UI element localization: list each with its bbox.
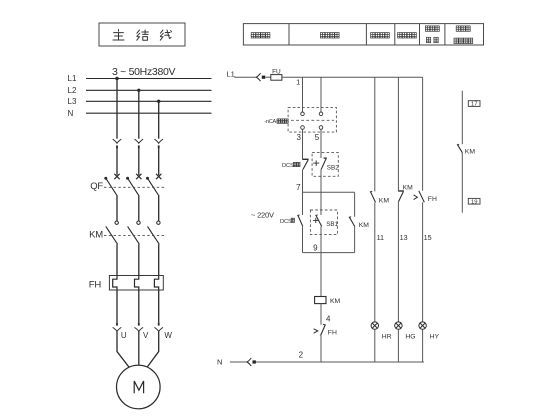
header text 仪表屏 — [456, 26, 460, 31]
svg-text:L1: L1 — [227, 69, 235, 78]
contact KM panel (NO) — [457, 144, 463, 153]
svg-text:FH: FH — [89, 280, 102, 291]
svg-text:KM: KM — [89, 229, 103, 240]
wire node7 to DCS lower — [302, 192, 304, 215]
contactor KM pole 1 contact circle — [115, 221, 118, 224]
wire V to motor — [138, 331, 140, 365]
header text 信号 — [426, 37, 430, 42]
pushbutton SB1 contact — [313, 215, 322, 227]
wire col HG drop — [397, 77, 399, 191]
wire node7 to SB1 — [320, 192, 322, 215]
svg-text:V: V — [143, 331, 149, 340]
svg-text:N: N — [68, 109, 74, 118]
svg-text:HY: HY — [430, 334, 440, 341]
contactor KM pole 2 blade — [128, 226, 140, 244]
wire drop to connector pin x=321.0 — [320, 77, 322, 112]
svg-text:15: 15 — [424, 233, 432, 242]
thermal relay FH heater pole 1 — [113, 276, 117, 291]
svg-text:5: 5 — [315, 133, 320, 142]
contact FH thermal (NC) — [314, 324, 326, 335]
junction dot phase 2 — [137, 89, 140, 92]
header text 热保护 — [425, 26, 429, 31]
header text 合闸信号 — [371, 33, 375, 38]
svg-text:FH: FH — [328, 330, 337, 337]
wire bus L2 — [86, 89, 212, 91]
svg-text:KM: KM — [379, 197, 390, 204]
svg-text:L2: L2 — [68, 86, 77, 95]
wire coil to FH contact — [320, 304, 322, 325]
wire KM to FH pole 2 — [138, 244, 140, 275]
wire lamp HG to node2 — [397, 329, 399, 362]
wire FH to motor terminal pole 1 — [116, 290, 118, 323]
svg-text:SB1: SB1 — [326, 221, 338, 228]
wire node7 bus — [303, 191, 355, 193]
svg-text:L1: L1 — [68, 74, 77, 83]
wire DCS lower to node9 — [302, 226, 304, 252]
breaker QF pole 3 contact X — [156, 174, 161, 179]
terminal tick pole 2 — [138, 323, 140, 326]
wire DCS contact to node7 — [302, 169, 304, 192]
wire to fuse — [265, 76, 271, 78]
wire FH to node2 — [320, 336, 322, 363]
svg-text:FH: FH — [428, 196, 437, 203]
lamp HG — [395, 322, 402, 329]
connector box dashed — [288, 107, 336, 132]
table divider x=394.8 — [394, 24, 396, 45]
svg-text:13: 13 — [400, 233, 408, 242]
wire bus L1 — [86, 78, 212, 80]
wire node9 bus — [303, 252, 355, 254]
terminal tick pole 3 — [158, 323, 160, 326]
wire phase 2 to QF — [138, 149, 140, 176]
wire N feed — [230, 361, 247, 363]
wire bus L3 — [86, 100, 212, 102]
svg-text:DCS: DCS — [282, 163, 294, 169]
terminal box 17 — [468, 101, 480, 107]
svg-text:2: 2 — [299, 351, 304, 360]
svg-text:11: 11 — [377, 233, 384, 242]
svg-text:17: 17 — [471, 102, 477, 108]
motor M circle — [117, 365, 161, 409]
arrow terminal L1 — [256, 73, 260, 81]
wire phase 1 to QF — [116, 149, 118, 176]
svg-text:L3: L3 — [68, 97, 77, 106]
pushbutton SB1 box dashed — [310, 210, 337, 235]
wire phase 3 to QF — [158, 149, 160, 176]
thermal relay FH heater pole 2 — [135, 276, 139, 291]
wire col HY to lamp — [422, 202, 424, 322]
svg-text:KM: KM — [330, 298, 341, 305]
wire L1 feed — [235, 76, 256, 79]
svg-text:N: N — [217, 358, 222, 367]
breaker QF pole 1 pivot dot — [104, 177, 107, 180]
svg-text:HG: HG — [405, 334, 415, 341]
breaker QF pole 2 pivot dot — [126, 177, 129, 180]
terminal cup pole 1 — [113, 327, 122, 331]
connector divider dashed — [291, 119, 334, 121]
svg-text:KM: KM — [403, 184, 414, 191]
wire SB2 to node7 — [320, 169, 322, 192]
wire SB1 to node9 — [320, 226, 322, 252]
wire pin5 to SB2 — [320, 129, 322, 158]
wire phase 1 drop — [116, 79, 118, 139]
title box 主结线 — [99, 23, 185, 46]
wire bus N — [86, 112, 212, 114]
wire lamp HR to node2 — [374, 329, 376, 362]
contact KM signal HG (NO) — [398, 191, 404, 202]
table divider x=366.4 — [365, 24, 367, 45]
fuse FU body — [271, 75, 282, 81]
svg-text:QF: QF — [90, 181, 103, 192]
contactor KM linkage dashed — [104, 235, 166, 237]
wire W to motor — [147, 331, 159, 367]
svg-text:4: 4 — [326, 314, 331, 323]
wire col HY drop — [422, 77, 424, 191]
connector pin top x=321.0 — [319, 112, 323, 116]
connector pin bottom x=302.5 — [301, 126, 305, 130]
contactor KM pole 3 blade — [148, 226, 160, 244]
wire panel indication bottom — [461, 153, 463, 213]
breaker QF pole 1 blade — [106, 178, 118, 196]
contact KM signal HR (NO) — [370, 191, 376, 202]
wire KM aux to node9 — [354, 226, 356, 252]
wire col HG to lamp — [397, 202, 399, 322]
contact DCS upper (NO) — [302, 159, 308, 169]
svg-text:-nCA: -nCA — [264, 119, 276, 125]
wire QF to KM pole 1 — [116, 196, 118, 221]
table divider x=289 — [288, 24, 290, 45]
svg-text:~ 220V: ~ 220V — [251, 210, 274, 219]
table divider x=444.9 — [444, 24, 446, 45]
svg-text:HR: HR — [382, 334, 392, 341]
pushbutton SB2 box dashed — [312, 153, 338, 177]
wire col HR to lamp — [374, 202, 376, 322]
wire QF to KM pole 3 — [158, 196, 160, 221]
wire col HR drop — [374, 77, 376, 191]
svg-text:19: 19 — [471, 199, 477, 205]
table divider x=419.5 — [419, 24, 421, 45]
lamp HR — [371, 322, 378, 329]
wire node7 to KM aux — [354, 192, 356, 216]
contactor KM pole 3 contact circle — [157, 221, 160, 224]
table header frame — [243, 24, 483, 45]
wire FH to motor terminal pole 2 — [138, 290, 140, 323]
wire phase 3 drop — [158, 101, 160, 138]
header text 电源回路 — [251, 33, 255, 38]
thermal relay FH box — [109, 276, 163, 291]
title text 主结线 (drawn strokes) — [113, 30, 172, 41]
svg-text:U: U — [121, 331, 127, 340]
svg-text:7: 7 — [296, 183, 301, 192]
wire QF to KM pole 2 — [138, 196, 140, 221]
wire node9 to coil — [320, 253, 322, 297]
junction dot phase 1 — [115, 77, 118, 80]
arrow connector phase 2 — [135, 139, 144, 143]
wire FH to motor terminal pole 3 — [158, 290, 160, 323]
svg-text:KM: KM — [465, 148, 476, 155]
terminal tick pole 1 — [116, 323, 118, 326]
connector pin bottom x=321.0 — [319, 126, 323, 130]
contact KM aux (NO) — [349, 217, 355, 227]
pushbutton SB2 contact — [313, 158, 327, 169]
wire lamp HY to node2 — [422, 329, 424, 362]
wire U to motor — [117, 331, 129, 367]
thermal relay FH heater pole 3 — [154, 276, 158, 291]
svg-text:SB2: SB2 — [327, 164, 339, 171]
breaker QF pole 3 pivot dot — [146, 177, 149, 180]
terminal box 19 — [468, 198, 480, 204]
breaker QF pole 3 blade — [148, 178, 160, 196]
svg-text:3 ~ 50Hz380V: 3 ~ 50Hz380V — [112, 66, 176, 78]
svg-text:9: 9 — [313, 244, 318, 253]
contactor KM pole 2 contact circle — [137, 221, 140, 224]
arrow terminal N — [247, 358, 251, 366]
wire KM to FH pole 1 — [116, 244, 118, 275]
junction dot phase 3 — [157, 100, 160, 103]
svg-text:3: 3 — [296, 133, 301, 142]
header text 运行指示 — [454, 38, 458, 43]
breaker QF linkage dashed — [104, 186, 166, 188]
coil KM — [315, 297, 326, 304]
svg-text:W: W — [164, 331, 172, 340]
contact FH signal HY (NC) — [414, 191, 425, 203]
contactor KM pole 1 blade — [106, 226, 118, 244]
wire pin3 to DCS contact — [302, 129, 304, 159]
svg-text:1: 1 — [296, 77, 300, 86]
arrow connector phase 1 — [113, 139, 122, 143]
lamp HY — [419, 322, 426, 329]
header text 分闸信号 — [398, 33, 402, 38]
wire KM to FH pole 3 — [158, 244, 160, 275]
wire node2 bus — [256, 361, 424, 363]
breaker QF pole 1 contact X — [114, 174, 119, 179]
terminal cup pole 3 — [154, 327, 163, 331]
wire phase 2 drop — [138, 90, 140, 138]
svg-text:DCS: DCS — [280, 219, 292, 225]
arrow connector phase 3 — [154, 139, 163, 143]
connector pin top x=302.5 — [301, 112, 305, 116]
breaker QF pole 2 contact X — [136, 174, 141, 179]
terminal cup pole 2 — [135, 327, 144, 331]
breaker QF pole 2 blade — [128, 178, 140, 196]
svg-text:KM: KM — [359, 222, 370, 229]
wire drop to connector pin x=302.5 — [302, 77, 304, 112]
wire panel indication top — [461, 91, 463, 145]
motor M letter — [134, 381, 143, 393]
contact DCS lower (NO) — [297, 215, 302, 226]
header text 操作回路 — [320, 33, 324, 38]
